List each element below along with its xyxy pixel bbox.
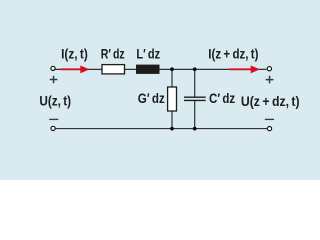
svg-text:I(z + dz, t): I(z + dz, t) <box>208 46 258 62</box>
svg-text:L′ dz: L′ dz <box>136 46 160 62</box>
svg-text:I(z, t): I(z, t) <box>61 46 88 62</box>
svg-text:R′ dz: R′ dz <box>101 46 125 62</box>
svg-text:U(z + dz, t): U(z + dz, t) <box>241 93 300 109</box>
svg-text:C′ dz: C′ dz <box>209 90 235 106</box>
svg-text:G′ dz: G′ dz <box>138 90 165 106</box>
svg-text:U(z, t): U(z, t) <box>39 92 71 108</box>
